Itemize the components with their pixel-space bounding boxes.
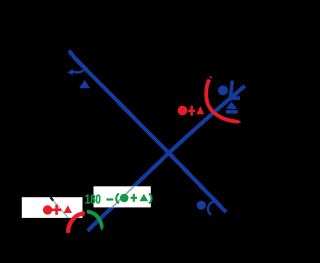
red label in box 1: dot [43, 205, 52, 214]
label box 1 (white, bottom-left) [22, 197, 83, 218]
green close paren [149, 194, 152, 204]
vertical bar at V4 [230, 81, 232, 101]
arrowhead of V1 arc [67, 70, 73, 76]
green minus sign [106, 198, 113, 200]
red label in box 1: triangle [64, 205, 72, 213]
angle arc at V2 (blue small arc) [208, 202, 213, 215]
dot marker at V4 [218, 85, 228, 95]
green label in box 2: triangle [140, 194, 149, 201]
triangle marker at V4 [226, 102, 237, 109]
horizontal bar 2 at V4 [226, 110, 238, 114]
svg-text:180: 180 [85, 193, 101, 207]
red arc at V3 [68, 213, 85, 233]
red arc at V4 [206, 79, 237, 121]
label box 2 (white, bottom-center) [94, 186, 151, 207]
green open paren [116, 194, 119, 204]
angle arc at V1 (blue small arc) [71, 68, 85, 72]
green label in box 2: plus [131, 197, 138, 199]
red label near V4: triangle [196, 106, 204, 114]
faint line through box 1 [50, 197, 68, 218]
red label near V4: dot [178, 106, 188, 116]
green label in box 2: dot [120, 194, 129, 203]
wire: blue line B (bottom-left to top-right) [88, 86, 245, 231]
arrowhead of green arc [100, 227, 104, 231]
horizontal bar 1 at V4 [229, 96, 240, 100]
dot marker at V2 [197, 201, 206, 210]
triangle marker at V1 [79, 80, 90, 88]
arrowhead bottom of V4 red arc [236, 119, 241, 124]
green arc at V3 [87, 212, 102, 227]
arrowhead top of V4 red arc [209, 76, 212, 79]
red label in box 1: plus [52, 209, 61, 212]
red label near V4: plus [188, 110, 195, 113]
wire: blue line A (top-left to bottom-right) [69, 51, 226, 213]
